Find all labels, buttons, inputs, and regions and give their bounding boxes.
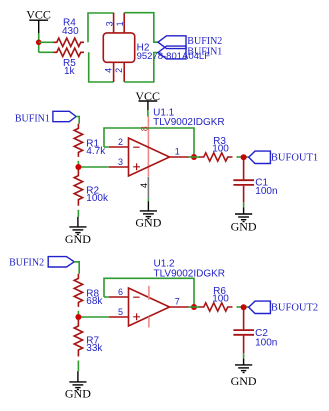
net flag BUFIN2 (top) (158, 36, 186, 49)
wire output to R6 (189, 306, 200, 308)
svg-text:100k: 100k (86, 193, 109, 204)
svg-text:3: 3 (118, 157, 123, 167)
svg-text:3: 3 (104, 21, 114, 26)
U1.1 output lead pin 1 (170, 156, 189, 158)
net flag BUFIN1 (top) (158, 46, 186, 59)
capacitor C1 top lead (243, 157, 245, 179)
net flag BUFIN1 (left) (53, 111, 76, 121)
H2 pin 4 (113, 62, 115, 82)
svg-text:1k: 1k (64, 66, 76, 77)
op-amp U1.1 pin 8 line (147, 117, 149, 177)
capacitor C1 bottom lead (243, 186, 245, 203)
node junction output/feedback U1.1 (191, 154, 197, 160)
capacitor C2 top lead (243, 307, 245, 329)
wire R2 to GND (77, 210, 79, 217)
wire C1 to GND (243, 202, 245, 207)
svg-text:2: 2 (114, 68, 124, 73)
svg-text:100: 100 (212, 143, 229, 154)
node junction output/feedback U1.2 (191, 304, 197, 310)
U1.1 minus sign (133, 146, 139, 148)
capacitor C2 bottom lead (243, 336, 245, 354)
wire R3 to BUFOUT1 (237, 156, 249, 158)
resistor R3 (199, 153, 233, 161)
svg-text:GND: GND (231, 374, 257, 388)
wire R1 to opamp pin3 (78, 161, 108, 167)
U1.2 pin 5 lead (109, 316, 129, 318)
ground for R7 (69, 371, 86, 389)
wire R5 to H2 pin 4 (89, 52, 114, 82)
wire R8 to opamp pin5 (78, 311, 108, 317)
svg-text:4: 4 (139, 183, 149, 188)
U1.2 minus sign (133, 296, 139, 298)
wire R6 to BUFOUT2 (237, 306, 249, 308)
ground for C1 (235, 207, 252, 221)
net flag BUFOUT2 (249, 301, 271, 313)
wire R7 to GND (77, 361, 79, 372)
svg-text:2: 2 (118, 137, 123, 147)
op-amp U1.1 pin 4 line (147, 177, 149, 199)
resistor R6 (199, 303, 233, 311)
net flag BUFOUT1 (249, 151, 271, 163)
svg-text:1: 1 (115, 21, 125, 26)
svg-text:BUFIN1: BUFIN1 (187, 46, 222, 57)
wire feedback U1.1 (104, 128, 194, 157)
wire to R4 (39, 41, 54, 43)
svg-text:5: 5 (118, 307, 123, 317)
resistor R7 (74, 320, 82, 357)
svg-text:4.7k: 4.7k (86, 146, 106, 157)
U1.1 pin 2 lead (109, 146, 129, 148)
svg-text:BUFIN2: BUFIN2 (9, 258, 44, 269)
U1.1 plus sign (133, 163, 140, 170)
wire feedback U1.2 (104, 278, 194, 307)
svg-text:GND: GND (65, 386, 91, 400)
svg-text:4: 4 (104, 68, 114, 73)
svg-text:68k: 68k (86, 296, 103, 307)
node junction R8/R7/pin5 (75, 314, 81, 320)
node junction VCC/R4/R5 (36, 40, 42, 46)
wire BUFIN2 to R8 (74, 262, 79, 274)
U1.2 plus sign (133, 313, 140, 320)
resistor R5 (54, 48, 85, 56)
svg-text:33k: 33k (86, 343, 103, 354)
wire C2 to GND (243, 353, 245, 358)
resistor R8 (74, 274, 82, 307)
capacitor C2 plates (233, 330, 254, 335)
node junction R3/C1/BUFOUT1 (241, 154, 247, 160)
resistor R2 (74, 170, 82, 206)
node junction R6/C2/BUFOUT2 (241, 304, 247, 310)
U1.2 hidden power pin stub (top) (148, 286, 150, 300)
H2 pin 3 (113, 13, 115, 33)
op-amp U1.1 triangle (129, 138, 170, 176)
svg-text:6: 6 (118, 287, 123, 297)
wire BUFIN1 to R1 (76, 117, 79, 124)
svg-text:100n: 100n (255, 186, 277, 197)
svg-text:430: 430 (62, 26, 79, 37)
svg-text:8: 8 (140, 126, 150, 131)
svg-text:100: 100 (212, 293, 229, 304)
ground for C2 (235, 359, 252, 373)
U1.1 pin 3 lead (109, 166, 129, 168)
svg-text:7: 7 (175, 296, 180, 306)
wire VCC to resistor divider (38, 33, 40, 52)
connector H2 body (103, 33, 134, 62)
svg-text:GND: GND (65, 232, 91, 246)
node junction R1/R2/pin3 (75, 164, 81, 170)
net flag BUFIN2 (left) (48, 257, 74, 267)
svg-text:BUFOUT1: BUFOUT1 (271, 153, 318, 164)
resistor R4 (54, 38, 85, 46)
svg-text:TLV9002IDGKR: TLV9002IDGKR (153, 117, 225, 128)
resistor R1 (74, 124, 82, 157)
U1.2 output lead pin 7 (170, 306, 189, 308)
svg-text:GND: GND (135, 215, 161, 229)
U1.2 pin 6 lead (109, 296, 129, 298)
wire pin4 to GND (147, 198, 149, 201)
svg-text:VCC: VCC (26, 8, 51, 22)
svg-text:BUFIN1: BUFIN1 (15, 113, 50, 124)
wire H2 pin1 to BUFIN2 flag (124, 13, 158, 43)
wire output to R3 (189, 156, 200, 158)
op-amp U1.2 triangle (129, 288, 170, 326)
U1.2 hidden power pin stub (bottom) (148, 317, 150, 328)
H2 pin 1 (123, 13, 125, 33)
wire R4 to H2 pin 3 (88, 13, 114, 42)
ground for R2 (69, 217, 86, 235)
capacitor C1 plates (233, 180, 254, 185)
wire VCC to pin 8 (147, 110, 149, 117)
svg-text:1: 1 (175, 146, 180, 156)
svg-text:100n: 100n (255, 337, 277, 348)
H2 pin 2 (123, 62, 125, 82)
wire H2 pin2 to BUFIN1 flag (124, 53, 158, 83)
svg-text:BUFOUT2: BUFOUT2 (271, 303, 318, 314)
wire to R5 (39, 51, 54, 53)
svg-text:GND: GND (231, 219, 257, 233)
ground for U1.1 (140, 201, 157, 218)
